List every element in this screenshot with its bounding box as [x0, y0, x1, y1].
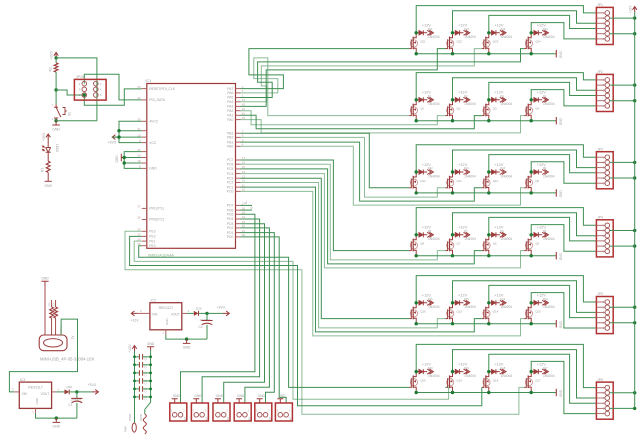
svg-text:IC2: IC2: [151, 298, 157, 302]
svg-text:+12V: +12V: [628, 5, 632, 14]
svg-text:1N4004: 1N4004: [428, 305, 440, 309]
ground above USB: [41, 276, 49, 307]
svg-text:GND: GND: [139, 413, 143, 421]
svg-text:X6: X6: [268, 417, 272, 421]
node source junction row6 unit4: [530, 391, 533, 394]
svg-text:GND: GND: [149, 167, 157, 171]
transistor Q24: [524, 33, 541, 54]
connector X3: [191, 403, 208, 421]
transistor Q5: [524, 235, 539, 256]
node GND junctions: [123, 156, 126, 165]
svg-text:D14: D14: [500, 297, 505, 301]
node cap C12 junctions: [133, 388, 152, 391]
svg-text:1N4004: 1N4004: [428, 237, 440, 241]
wire Q drain row3 unit2 to JP3 pin3: [453, 150, 597, 172]
svg-text:C13: C13: [143, 395, 147, 400]
svg-text:1N4004: 1N4004: [428, 35, 440, 39]
wire source ground rail row4: [416, 255, 556, 257]
svg-text:+12V: +12V: [422, 23, 432, 28]
svg-text:D25: D25: [196, 306, 202, 310]
svg-text:D24: D24: [543, 27, 548, 31]
svg-text:18: 18: [137, 159, 141, 163]
wire PE1 gate row6 unit2: [134, 241, 448, 399]
svg-text:2: 2: [248, 409, 250, 413]
svg-text:X5: X5: [247, 417, 251, 421]
svg-text:+12V: +12V: [458, 361, 468, 366]
svg-text:IC1: IC1: [146, 79, 152, 83]
svg-text:PC5: PC5: [227, 167, 234, 171]
svg-text:PE3: PE3: [149, 230, 155, 234]
wire Q drain row4 unit2 to JP4 pin3: [453, 213, 597, 236]
svg-text:2: 2: [188, 309, 190, 313]
wire JP1 pin5 to +12V rail: [610, 32, 637, 35]
diode D12 1N4004 with +12V arrow: [416, 162, 440, 179]
svg-text:Q2: Q2: [457, 107, 461, 111]
ground connector X2: [172, 394, 181, 403]
svg-text:1N4004: 1N4004: [501, 374, 513, 378]
svg-text:GND: GND: [258, 394, 266, 398]
node source junction row5 unit4: [530, 322, 533, 325]
wire pad GND (spring): [139, 413, 147, 434]
svg-text:36: 36: [137, 216, 141, 220]
power +12V rail vertical: [628, 5, 637, 409]
svg-text:D23: D23: [500, 27, 505, 31]
svg-text:VIN: VIN: [22, 392, 28, 396]
svg-text:1N4004: 1N4004: [464, 174, 476, 178]
connector JP6: [596, 378, 613, 419]
svg-text:Q6: Q6: [493, 242, 497, 246]
node drain junction Q6: [487, 233, 490, 236]
wire JP3 pin2 to +12V rail: [610, 161, 637, 164]
regulator IC3 REG1117: [12, 378, 60, 414]
svg-text:+12V: +12V: [494, 23, 504, 28]
svg-text:GND: GND: [278, 394, 286, 398]
wire PC7 gate row4 unit1: [241, 160, 410, 251]
transistor Q11: [446, 172, 463, 193]
svg-text:1: 1: [162, 331, 164, 335]
svg-text:1: 1: [277, 409, 279, 413]
transistor Q3: [482, 100, 497, 121]
connector X1 mini-USB: [39, 307, 94, 362]
svg-text:D6: D6: [500, 229, 504, 233]
node source junction row3 unit3: [487, 191, 490, 194]
svg-text:+12V: +12V: [494, 293, 504, 298]
wire PB1 gate row3 unit3: [241, 142, 482, 201]
wire Q drain row3 unit3 to JP3 pin4: [489, 155, 597, 173]
svg-text:C1: C1: [68, 403, 72, 407]
wire JP15 pin1 to IC1 PDI_DATA: [84, 74, 142, 100]
svg-text:D5: D5: [543, 229, 547, 233]
ground connector X4: [215, 394, 224, 403]
svg-text:Q21: Q21: [420, 40, 426, 44]
node source junction row2 unit4: [530, 119, 533, 122]
node drain junction Q12: [415, 170, 418, 173]
wire Q drain row4 unit3 to JP4 pin4: [489, 217, 597, 241]
transistor Q20: [409, 372, 426, 393]
svg-text:D3: D3: [500, 94, 504, 98]
svg-text:Q22: Q22: [457, 40, 463, 44]
svg-text:1N4004: 1N4004: [428, 174, 440, 178]
svg-text:S1: S1: [68, 112, 72, 116]
svg-text:X1: X1: [71, 336, 75, 340]
svg-text:+12V: +12V: [422, 293, 432, 298]
svg-text:PC4: PC4: [227, 172, 234, 176]
node source junction row4 unit1: [415, 254, 418, 257]
svg-text:VOUT: VOUT: [40, 392, 49, 396]
svg-text:20: 20: [137, 154, 141, 158]
svg-text:1N4004: 1N4004: [464, 374, 476, 378]
svg-text:Q10: Q10: [493, 179, 499, 183]
svg-text:2: 2: [183, 409, 185, 413]
wire JP4 pin2 to +12V rail: [610, 229, 637, 232]
wire JP6 pin5 to +12V rail: [610, 407, 637, 410]
wire IC2 ground: [166, 335, 207, 340]
node drain junction Q24: [530, 31, 533, 34]
connector JP3: [596, 147, 613, 188]
node cap C9 junctions: [133, 363, 152, 366]
diode D9 1N4004 with +12V arrow: [531, 162, 555, 179]
transistor Q2: [446, 100, 461, 121]
svg-text:+12V: +12V: [494, 162, 504, 167]
wire PD4 to connector X3: [202, 219, 260, 403]
node source junction row2 unit2: [451, 119, 454, 122]
svg-text:1: 1: [235, 409, 237, 413]
node drain junction Q8: [415, 233, 418, 236]
svg-text:R1: R1: [40, 168, 44, 172]
ground row4: [556, 252, 563, 260]
node D26 output junction: [75, 390, 78, 393]
wire PB2 gate row3 unit2: [241, 137, 446, 197]
svg-text:+12V: +12V: [422, 162, 432, 167]
svg-text:GND: GND: [183, 346, 191, 350]
wire Q drain row3 unit1 to JP3 pin1: [416, 145, 596, 172]
svg-text:19: 19: [137, 133, 141, 137]
svg-text:PE1: PE1: [149, 239, 155, 243]
svg-text:1N4004: 1N4004: [501, 174, 513, 178]
transistor Q4: [524, 100, 539, 121]
ground below S1: [52, 121, 60, 132]
wire Q drain row2 unit3 to JP2 pin4: [489, 82, 597, 99]
connector X5: [234, 403, 251, 421]
wire JP3 pin5 to +12V rail: [610, 176, 637, 179]
svg-text:D22: D22: [464, 27, 469, 31]
node drain junction Q23: [487, 31, 490, 34]
svg-text:D11: D11: [464, 166, 469, 170]
svg-text:LED2: LED2: [55, 144, 59, 152]
connector JP5: [596, 292, 613, 333]
wire PA5 gate row1 unit4: [241, 49, 525, 98]
capacitor C13: [135, 394, 151, 400]
power +3V3 arrow (IC2 out): [207, 306, 229, 316]
svg-text:6: 6: [100, 93, 102, 97]
wire JP6 pin2 to +12V rail: [610, 391, 637, 394]
svg-text:D19: D19: [464, 366, 469, 370]
wire Q drain row6 unit1 to JP6 pin1: [416, 344, 596, 387]
wire Q drain row4 unit1 to JP4 pin1: [416, 208, 596, 235]
wire JP1 pin2 to +12V rail: [610, 16, 637, 19]
svg-text:C10: C10: [143, 371, 147, 376]
svg-text:+3V3: +3V3: [50, 51, 54, 59]
svg-text:Q16: Q16: [420, 310, 426, 314]
wire IC3 ground: [36, 413, 77, 418]
svg-text:Q14: Q14: [493, 310, 499, 314]
svg-text:1N4004: 1N4004: [501, 102, 513, 106]
node JP15 pin5: [83, 93, 86, 96]
svg-text:GND: GND: [173, 394, 181, 398]
svg-text:GND: GND: [44, 184, 52, 188]
svg-text:Q3: Q3: [493, 107, 497, 111]
wire JP4 pin5 to +12V rail: [610, 244, 637, 247]
node S1 gnd junction: [54, 119, 57, 122]
svg-text:+12V: +12V: [458, 90, 468, 95]
svg-text:1: 1: [171, 409, 173, 413]
svg-text:1N4004: 1N4004: [464, 237, 476, 241]
wire RESET to JP15 pin5: [56, 90, 84, 95]
svg-text:JP15: JP15: [76, 75, 84, 79]
svg-text:GND: GND: [216, 394, 224, 398]
diode D24 1N4004 with +12V arrow: [531, 23, 555, 40]
node drain junction Q16: [415, 301, 418, 304]
node source junction row6 unit1: [415, 391, 418, 394]
power +3V3 supply arrow (reset pullup): [50, 51, 59, 59]
wire PD2 to connector X5: [241, 228, 270, 403]
node drain junction Q13: [530, 301, 533, 304]
ground row1: [556, 50, 563, 58]
transistor Q22: [446, 33, 463, 54]
wire PA0 gate row2 unit4: [241, 116, 525, 133]
svg-text:GND: GND: [41, 276, 49, 280]
connector X6: [255, 403, 272, 421]
svg-text:GND: GND: [237, 394, 245, 398]
svg-text:3: 3: [140, 309, 142, 313]
svg-text:+12V: +12V: [130, 318, 139, 322]
svg-text:Q19: Q19: [457, 378, 463, 382]
wire source ground rail row2: [416, 120, 556, 122]
diode D18 1N4004 with +12V arrow: [489, 361, 513, 378]
wire PC0 gate row5 unit4: [241, 191, 525, 336]
node drain junction Q19: [451, 370, 454, 373]
wire +3V3 to JP15 pin2: [56, 58, 97, 121]
ground row3: [556, 189, 563, 197]
node IC2 gnd junction: [185, 337, 188, 340]
svg-text:1: 1: [51, 117, 53, 121]
svg-text:GND: GND: [147, 342, 155, 346]
svg-text:Q11: Q11: [457, 179, 463, 183]
node source junction row5 unit1: [415, 322, 418, 325]
node D- label on PD6: [241, 206, 254, 210]
svg-text:Q1: Q1: [420, 107, 424, 111]
node AVCC junctions: [117, 129, 120, 139]
svg-text:MINI-USB_4P-05-32004-10X: MINI-USB_4P-05-32004-10X: [40, 357, 94, 362]
diode D20 1N4004 with +12V arrow: [416, 361, 440, 378]
node drain junction Q9: [530, 170, 533, 173]
node source junction row5 unit2: [451, 322, 454, 325]
svg-text:PD7: PD7: [227, 204, 234, 208]
svg-text:1N4004: 1N4004: [464, 102, 476, 106]
svg-text:1N4004: 1N4004: [501, 35, 513, 39]
svg-text:PDI_DATA: PDI_DATA: [149, 98, 165, 102]
diode D10 1N4004 with +12V arrow: [489, 162, 513, 179]
wire JP15 pin5 to IC1 RESET: [84, 89, 142, 105]
regulator IC2 REG1117: [138, 298, 190, 335]
diode D15 1N4004 with +12V arrow: [453, 293, 477, 310]
node cap C13 junctions: [133, 396, 152, 399]
svg-text:+12V: +12V: [537, 162, 547, 167]
svg-text:1N4004: 1N4004: [428, 102, 440, 106]
resistor R5 (D-): [51, 300, 57, 318]
power +3V3 arrow (AVCC): [108, 135, 119, 145]
svg-text:C11: C11: [143, 379, 147, 384]
ground connector X7: [277, 394, 286, 403]
wire PE3 gate row6 unit4: [125, 231, 524, 414]
transistor Q18: [482, 372, 499, 393]
wire Q drain row5 unit4 to JP5 pin6: [531, 293, 596, 328]
wire S1 to JP15 pin6 gnd: [56, 120, 97, 122]
svg-text:Q5: Q5: [535, 242, 539, 246]
ground symbol (IC1 GND pins): [115, 154, 124, 163]
svg-text:REG1117: REG1117: [28, 385, 42, 389]
svg-text:D15: D15: [464, 297, 469, 301]
svg-text:31: 31: [137, 127, 141, 131]
svg-text:PC6: PC6: [227, 162, 234, 166]
svg-text:1N4004: 1N4004: [543, 102, 555, 106]
resistor R2: [48, 58, 58, 90]
node drain junction Q3: [487, 98, 490, 101]
node cap C8 junctions: [133, 355, 152, 358]
svg-text:PD4: PD4: [227, 217, 234, 221]
svg-text:Q20: Q20: [420, 378, 426, 382]
node +3V3 junction: [54, 56, 57, 59]
svg-text:X4: X4: [226, 417, 230, 421]
node source junction row3 unit4: [530, 191, 533, 194]
node drain junction Q14: [487, 301, 490, 304]
svg-text:3: 3: [79, 88, 81, 92]
diode D19 1N4004 with +12V arrow: [453, 361, 477, 378]
resistor R1: [40, 161, 50, 181]
svg-text:PE2: PE2: [149, 235, 155, 239]
svg-text:+3V3: +3V3: [42, 133, 46, 141]
svg-text:VIN: VIN: [152, 312, 158, 316]
wire Q drain row2 unit2 to JP2 pin3: [453, 78, 597, 100]
svg-text:PD5: PD5: [227, 213, 234, 217]
svg-text:JP4: JP4: [597, 216, 603, 220]
node D+ label on PD7: [241, 200, 253, 205]
svg-text:PWR: PWR: [124, 426, 128, 432]
svg-text:+12V: +12V: [458, 162, 468, 167]
wire Q drain row1 unit1 to JP1 pin1: [416, 6, 596, 33]
node drain junction Q21: [415, 31, 418, 34]
connector JP4: [596, 216, 613, 257]
svg-text:D7: D7: [464, 229, 468, 233]
transistor Q23: [482, 33, 499, 54]
node source junction row1 unit4: [530, 52, 533, 55]
svg-text:X7: X7: [289, 417, 293, 421]
svg-text:PR0(XT2): PR0(XT2): [149, 218, 164, 222]
svg-text:GND: GND: [53, 425, 61, 429]
wire Q drain row5 unit1 to JP5 pin1: [416, 276, 596, 303]
node drain junction Q1: [415, 98, 418, 101]
transistor Q1: [409, 100, 424, 121]
wire Q drain row6 unit2 to JP6 pin3: [453, 350, 597, 398]
wire PD3 to connector X4: [224, 224, 265, 403]
node source junction row3 unit1: [415, 191, 418, 194]
IC1 left pin stubs and labels: [137, 85, 175, 248]
transistor Q13: [524, 303, 541, 324]
svg-text:+12V: +12V: [128, 344, 132, 353]
svg-text:C9: C9: [143, 364, 147, 368]
wire Q drain row4 unit4 to JP4 pin6: [531, 225, 596, 252]
svg-text:XMEGA16A4A: XMEGA16A4A: [148, 252, 175, 257]
node IC3 gnd junction: [55, 416, 58, 419]
svg-text:1N4004: 1N4004: [543, 374, 555, 378]
svg-text:D8: D8: [428, 229, 432, 233]
ground row5: [556, 320, 563, 328]
capacitor C11: [135, 378, 151, 384]
svg-text:1N4004: 1N4004: [501, 237, 513, 241]
svg-text:+12V: +12V: [494, 225, 504, 230]
diode D23 1N4004 with +12V arrow: [489, 23, 513, 40]
diode D8 1N4004 with +12V arrow: [416, 225, 440, 242]
svg-text:X2: X2: [183, 417, 187, 421]
svg-text:+12V: +12V: [422, 90, 432, 95]
svg-text:+12V: +12V: [422, 361, 432, 366]
diode D11 1N4004 with +12V arrow: [453, 162, 477, 179]
node drain junction Q20: [415, 370, 418, 373]
wire JP2 pin2 to +12V rail: [610, 83, 637, 86]
wire AVCC rail: [112, 121, 142, 142]
diode D6 1N4004 with +12V arrow: [489, 225, 513, 242]
node drain junction Q15: [451, 301, 454, 304]
svg-text:PD0: PD0: [227, 235, 234, 239]
node source junction row3 unit2: [451, 191, 454, 194]
svg-text:PA6: PA6: [227, 91, 233, 95]
diode D4 1N4004 with +12V arrow: [531, 90, 555, 107]
svg-text:PA4: PA4: [227, 100, 233, 104]
svg-text:Q9: Q9: [535, 179, 539, 183]
svg-text:+3V3: +3V3: [88, 383, 96, 387]
svg-text:2: 2: [205, 409, 207, 413]
svg-text:R2: R2: [48, 67, 52, 71]
ground cap bank: [147, 342, 155, 351]
svg-text:D-: D-: [51, 302, 55, 305]
wire JP2 pin5 to +12V rail: [610, 99, 637, 102]
svg-text:D21: D21: [428, 27, 433, 31]
svg-text:VOUT: VOUT: [171, 312, 180, 316]
node source junction row2 unit3: [487, 119, 490, 122]
wire PC3 gate row5 unit1: [241, 178, 410, 318]
node source junction row1 unit2: [451, 52, 454, 55]
svg-text:+12V: +12V: [494, 361, 504, 366]
svg-text:GND: GND: [194, 394, 202, 398]
svg-text:1: 1: [32, 410, 34, 414]
svg-text:+12V: +12V: [494, 90, 504, 95]
node source junction row6 unit2: [451, 391, 454, 394]
svg-text:Q8: Q8: [420, 242, 424, 246]
svg-text:D10: D10: [500, 166, 505, 170]
svg-text:D20: D20: [428, 366, 433, 370]
node drain junction Q5: [530, 233, 533, 236]
svg-text:VCC: VCC: [149, 141, 157, 145]
wire PE0 gate row6 unit1: [139, 246, 410, 388]
svg-text:3: 3: [51, 103, 53, 107]
svg-text:AVCC: AVCC: [149, 120, 159, 124]
wire Q drain row5 unit2 to JP5 pin3: [453, 281, 597, 313]
ground IC2: [183, 339, 191, 350]
resistor R4 (D+): [47, 300, 53, 318]
svg-text:+12V: +12V: [537, 225, 547, 230]
wire PD1 to connector X6: [241, 233, 275, 403]
transistor Q21: [409, 33, 426, 54]
